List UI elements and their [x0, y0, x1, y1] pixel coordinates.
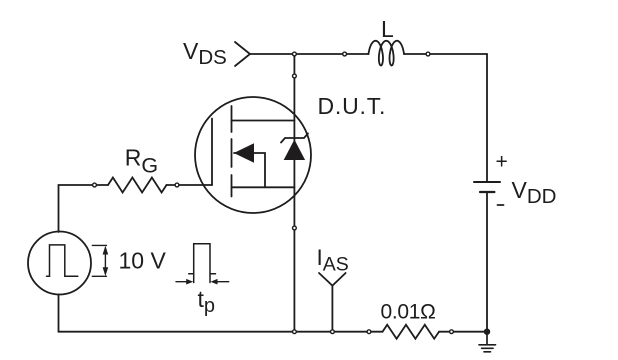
- wire right rail down to battery +: [486, 54, 488, 182]
- MOSFET channel dashed segment bottom: [231, 175, 233, 197]
- tp arrow head left: [186, 279, 193, 285]
- wire drain vertical through DUT: [293, 54, 295, 332]
- 10V arrow head bottom: [103, 267, 109, 276]
- resistor 0.01ohm zigzag: [383, 325, 440, 339]
- svg-text:0.01Ω: 0.01Ω: [381, 300, 436, 323]
- 10V double arrow shaft: [104, 251, 106, 271]
- node terminal circle source bottom rail: [293, 330, 297, 334]
- wire pulse gen top lead and gate rail: [59, 185, 109, 232]
- node terminal circle shunt left: [367, 330, 371, 334]
- wire battery - down to bottom rail: [486, 192, 488, 332]
- node terminal circle source lower: [293, 226, 297, 230]
- battery VDD short plate: [480, 191, 494, 193]
- inductor L coil: [369, 41, 405, 66]
- wire top rail from VDS arrow to inductor: [250, 53, 369, 55]
- node terminal circle VDS junction: [293, 52, 297, 56]
- MOSFET channel dashed segment middle: [231, 139, 233, 167]
- IAS arrow chevron and lead: [319, 273, 346, 329]
- DUT MOSFET body circle: [195, 97, 311, 213]
- MOSFET body arrow head: [234, 143, 254, 163]
- wire bottom rail: [59, 331, 383, 333]
- wire inductor to right corner: [404, 53, 487, 55]
- tp arrow head right: [211, 279, 218, 285]
- battery minus sign: [498, 204, 504, 206]
- wire resistor to ground junction: [439, 331, 487, 333]
- MOSFET body arrow line and step: [234, 153, 265, 187]
- svg-text:+: +: [496, 151, 508, 174]
- svg-text:D.U.T.: D.U.T.: [318, 93, 387, 119]
- svg-text:L: L: [381, 16, 394, 42]
- tp right arrow shaft: [216, 281, 229, 283]
- node terminal circle inductor left: [343, 52, 347, 56]
- node terminal circle drain upper: [293, 74, 297, 78]
- svg-text:10 V: 10 V: [119, 248, 167, 274]
- ground symbol: [479, 332, 496, 352]
- VDS arrow chevron: [235, 42, 250, 66]
- MOSFET gate bar: [211, 119, 213, 186]
- junction dot ground node: [484, 329, 490, 335]
- 10V measure ticks: [92, 245, 106, 276]
- wire pulse gen bottom lead: [58, 295, 60, 332]
- node terminal circle IAS tap: [331, 330, 335, 334]
- node terminal circle inductor right: [426, 52, 430, 56]
- body diode cathode zener bar: [281, 134, 308, 143]
- MOSFET source bar: [232, 186, 295, 188]
- tp pulse waveform: [189, 244, 216, 283]
- resistor RG zigzag: [108, 178, 167, 193]
- battery VDD long plate: [474, 181, 500, 183]
- tp left arrow shaft: [176, 281, 188, 283]
- pulse generator waveform: [47, 245, 78, 276]
- node terminal circle RG left: [93, 183, 97, 187]
- MOSFET channel dashed segment top: [231, 106, 233, 132]
- body diode triangle: [284, 140, 305, 161]
- pulse generator circle: [28, 232, 91, 295]
- 10V arrow head top: [103, 246, 109, 255]
- wire RG to gate: [167, 184, 213, 186]
- node terminal circle shunt right: [450, 330, 454, 334]
- MOSFET drain bar: [232, 120, 295, 122]
- node terminal circle RG right: [175, 183, 179, 187]
